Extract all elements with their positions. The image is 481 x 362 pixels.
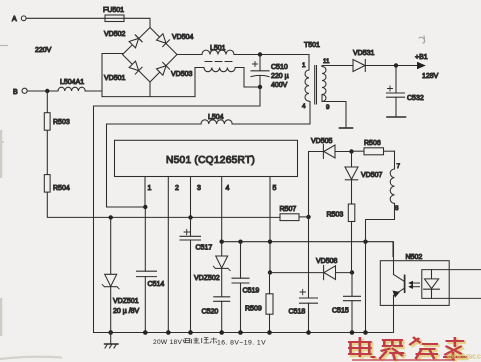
svg-text:VD503: VD503 (171, 71, 193, 78)
ground T501 pin9 (340, 127, 353, 129)
wire fuse to bridge top (124, 18, 150, 27)
feedback line y=241.7 (222, 242, 393, 257)
node C515 bottom (350, 330, 355, 335)
resistor R503 (left) (44, 113, 70, 131)
diode VD503 (156, 62, 169, 75)
scan artifacts (0, 46, 8, 143)
node B junction (45, 89, 49, 93)
wire pin1 column to C514 (144, 207, 146, 271)
svg-text:C514: C514 (148, 281, 165, 288)
svg-text:400V: 400V (271, 82, 288, 89)
L501 core marks (205, 61, 232, 63)
pin 2 (167, 177, 169, 333)
svg-text:4: 4 (302, 103, 306, 110)
node C519 top (238, 240, 242, 244)
svg-text:WWW.DZSC.COM: WWW.DZSC.COM (447, 355, 481, 361)
pin 1 (144, 177, 146, 208)
wire lower winding right to C510 bottom (235, 68, 260, 88)
zener VDZ502 (194, 242, 230, 297)
wire A to fuse (26, 17, 105, 19)
wire jog to pin1 node (107, 206, 146, 208)
node C514 bottom (143, 330, 148, 335)
svg-text:R503: R503 (327, 212, 344, 219)
svg-text:4: 4 (226, 185, 230, 192)
node pin4/VDZ502 (220, 240, 224, 244)
svg-text:C532: C532 (407, 95, 424, 102)
svg-text:7: 7 (397, 163, 401, 170)
pin 5 (269, 177, 271, 273)
svg-text:R509: R509 (245, 306, 262, 313)
svg-text:L504: L504 (208, 114, 224, 121)
svg-text:1: 1 (148, 185, 152, 192)
inductor L501 lower winding (204, 68, 235, 72)
capacitor C520 (202, 297, 230, 333)
svg-text:R504: R504 (53, 185, 70, 192)
svg-text:C518: C518 (289, 309, 306, 316)
output arrow +B1 (415, 54, 439, 80)
capacitor C519 (232, 242, 259, 333)
resistor R506 (352, 140, 395, 155)
faint mark (419, 36, 425, 43)
svg-text:C515: C515 (332, 308, 349, 315)
resistor R507 (280, 206, 309, 221)
svg-text:VD502: VD502 (104, 31, 126, 38)
svg-text:11: 11 (323, 58, 330, 65)
node C532 top (394, 63, 398, 67)
wire bridge right to L501 (177, 54, 202, 56)
wire L504A1 to bridge left (85, 54, 122, 97)
svg-text:R507: R507 (280, 206, 297, 213)
node R509 bottom (267, 330, 272, 335)
svg-text:FU501: FU501 (103, 7, 124, 14)
node pin2 bottom (166, 330, 171, 335)
node VD505/R506/VD507 (349, 149, 353, 153)
node winding8 bottom (363, 330, 368, 335)
svg-text:3: 3 (197, 185, 201, 192)
terminal B (13, 88, 27, 96)
diode VD504 (156, 34, 169, 47)
wire lower winding left leg (195, 68, 204, 97)
svg-text:2: 2 (175, 185, 179, 192)
node winding8 line (363, 240, 367, 244)
svg-text:B: B (13, 89, 18, 96)
diode VD502 (129, 35, 142, 48)
svg-text:A: A (12, 16, 17, 23)
svg-text:+B1: +B1 (415, 54, 428, 61)
svg-text:VD531: VD531 (353, 50, 375, 57)
resistor R509 (245, 273, 273, 333)
wire VD505 branch (309, 152, 324, 217)
capacitor C532 (387, 66, 424, 117)
diode VD531 (353, 50, 375, 72)
wire C510 bottom rail to left column (94, 87, 261, 333)
wire L501 to T501 rail (234, 54, 309, 56)
pin 3 (190, 177, 192, 218)
ground C532 (387, 116, 406, 118)
svg-text:VD501: VD501 (104, 75, 126, 82)
optocoupler N502 (380, 254, 449, 306)
wire L504 to T501 pin4 (232, 102, 310, 125)
capacitor C510 (251, 55, 289, 90)
svg-text:220 µ: 220 µ (271, 73, 289, 80)
node C518 bottom (306, 330, 311, 335)
watermark 电器资料 (350, 339, 469, 362)
wire R509 node to VD508 (270, 272, 323, 274)
svg-text:5: 5 (273, 185, 277, 192)
fuse FU501 (103, 7, 124, 22)
node R507 right (306, 215, 310, 219)
opto phototransistor (393, 242, 405, 333)
svg-text:N501 (CQ1265RT): N501 (CQ1265RT) (166, 155, 255, 166)
opto LED (424, 270, 440, 299)
svg-text:VD505: VD505 (311, 138, 333, 145)
svg-text:C519: C519 (243, 288, 260, 295)
svg-text:VD504: VD504 (172, 34, 194, 41)
node C510 top (258, 52, 262, 56)
svg-text:R503: R503 (53, 119, 70, 126)
opto LED inner frame (422, 270, 481, 299)
svg-text:C520: C520 (202, 309, 219, 316)
svg-text:VD507: VD507 (361, 172, 383, 179)
node C520 bottom (219, 330, 224, 335)
node pin1 (143, 205, 147, 209)
svg-text:20W 18V: 20W 18V (153, 339, 183, 346)
wire T501 pin9 to ground (322, 95, 346, 128)
inductor L504 (201, 114, 232, 124)
svg-text:8: 8 (395, 205, 399, 212)
wire bridge bottom return (102, 82, 195, 97)
svg-text:N502: N502 (406, 254, 423, 261)
diode VD505 (311, 138, 352, 159)
svg-text:T501: T501 (304, 42, 320, 49)
node C510 bottom (258, 85, 262, 89)
inductor L501 upper winding (202, 45, 234, 55)
main bus (47, 91, 280, 217)
chassis ground (105, 333, 119, 349)
wire T501 pin11 to VD531 (322, 66, 353, 67)
wire B (27, 90, 58, 92)
resistor R504 (44, 175, 70, 193)
node VD508 right (350, 270, 354, 274)
bridge diamond wires (123, 28, 178, 83)
capacitor C514 (137, 271, 165, 332)
svg-text:L504A1: L504A1 (60, 79, 84, 86)
watermark underline (352, 359, 455, 361)
node R509 top (268, 270, 272, 274)
svg-text:VDZ501: VDZ501 (113, 298, 139, 305)
winding 7-8 (390, 151, 400, 212)
svg-text:9: 9 (326, 104, 330, 111)
svg-text:VDZ502: VDZ502 (194, 275, 220, 282)
diode VD508 (316, 258, 352, 280)
zener VDZ501 (102, 217, 139, 332)
node pin5 cross (268, 240, 272, 244)
caption 20W 18V ... (153, 338, 266, 347)
capacitor C515 (332, 273, 361, 333)
svg-text:L501: L501 (210, 45, 226, 52)
svg-text:VD508: VD508 (316, 258, 338, 265)
capacitor C517 (180, 217, 212, 332)
IC N501 box (115, 140, 298, 176)
wire winding8 down (366, 203, 395, 332)
opto light arrows (408, 281, 419, 289)
node C517 bottom (188, 330, 193, 335)
svg-text:R506: R506 (364, 140, 381, 147)
inductor L504A1 (58, 79, 85, 91)
pin 4 (221, 177, 223, 242)
svg-text:20 µ /8V: 20 µ /8V (113, 308, 140, 315)
diode VD501 (129, 61, 142, 74)
capacitor C518 (289, 217, 318, 333)
svg-text:C510: C510 (271, 64, 288, 71)
svg-text:1: 1 (302, 62, 306, 69)
node VDZ501 top (109, 215, 113, 219)
node C519 bottom (238, 330, 243, 335)
node VDZ501 bottom (108, 330, 113, 335)
terminal A (12, 16, 26, 23)
transformer T501 (302, 42, 330, 111)
node pin3 bus (188, 215, 192, 219)
resistor R503 (right) (327, 180, 355, 273)
wire VD531 to output (365, 65, 418, 67)
svg-text:16. 8V~19. 1V: 16. 8V~19. 1V (217, 340, 266, 347)
svg-text:C517: C517 (196, 245, 213, 252)
diode VD507 (345, 152, 383, 180)
svg-text:128V: 128V (422, 73, 439, 80)
svg-text:220V: 220V (35, 47, 52, 54)
wire L504 rail (107, 124, 202, 207)
bottom bus (94, 332, 393, 334)
